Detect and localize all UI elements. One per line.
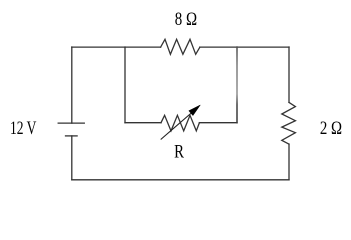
battery V1 long plate	[58, 122, 84, 124]
battery V1 short plate	[66, 135, 78, 137]
wire top right segment	[200, 46, 289, 48]
wire inner left vertical	[124, 47, 126, 123]
rheostat arrow shaft	[161, 109, 197, 140]
wire left vertical upper	[71, 47, 73, 123]
rheostat R zigzag	[161, 115, 199, 131]
wire right vertical upper	[288, 47, 290, 102]
svg-text:8 Ω: 8 Ω	[175, 9, 197, 30]
wire right vertical lower	[288, 144, 290, 180]
rheostat arrowhead	[189, 105, 201, 116]
svg-text:12 V: 12 V	[10, 118, 37, 139]
wire middle left segment	[125, 122, 161, 124]
resistor R1 8-ohm zigzag	[161, 39, 200, 54]
resistor R3 2-ohm zigzag	[282, 102, 296, 144]
wire bottom	[72, 179, 289, 181]
svg-text:R: R	[174, 141, 184, 162]
wire left vertical lower	[71, 136, 73, 180]
svg-text:2 Ω: 2 Ω	[320, 118, 342, 139]
wire middle right segment	[199, 122, 237, 124]
wire inner right vertical	[236, 47, 238, 123]
wire top left segment	[72, 46, 161, 48]
